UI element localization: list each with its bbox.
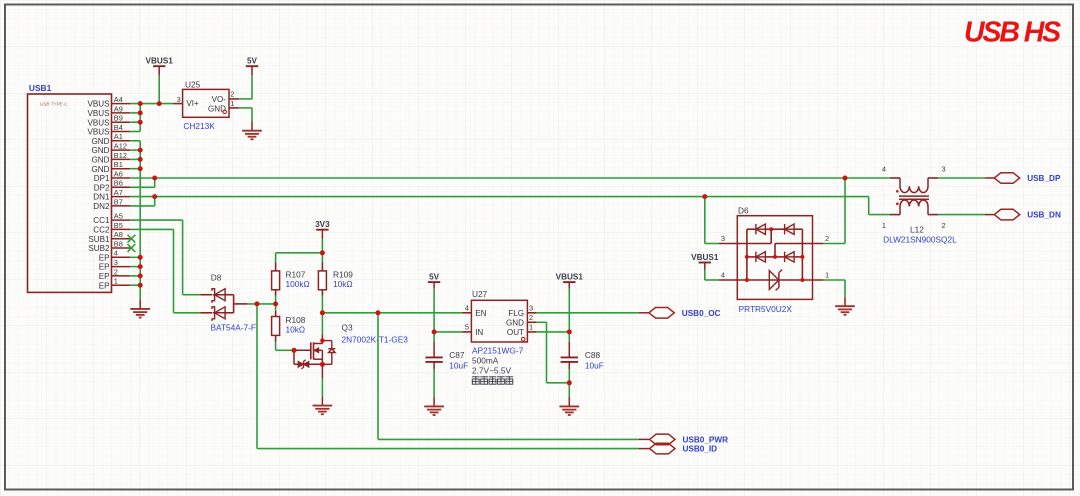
svg-text:USB TYPE-C: USB TYPE-C	[40, 102, 68, 107]
svg-text:B9: B9	[114, 114, 123, 123]
svg-text:DLW21SN900SQ2L: DLW21SN900SQ2L	[883, 234, 957, 244]
svg-text:A8: A8	[114, 230, 123, 239]
svg-text:VBUS1: VBUS1	[691, 253, 719, 262]
svg-text:4: 4	[882, 165, 886, 174]
svg-text:500mA: 500mA	[472, 356, 499, 366]
svg-text:VO-: VO-	[212, 95, 227, 104]
svg-text:IN: IN	[475, 328, 483, 337]
svg-text:10kΩ: 10kΩ	[286, 325, 306, 335]
svg-text:USB HS: USB HS	[964, 16, 1061, 48]
svg-text:10uF: 10uF	[585, 360, 604, 370]
svg-text:5V: 5V	[429, 273, 440, 282]
svg-text:USB0_PWR: USB0_PWR	[683, 436, 729, 445]
svg-text:U25: U25	[185, 79, 201, 89]
svg-text:3: 3	[529, 304, 533, 313]
svg-text:D6: D6	[738, 206, 749, 216]
svg-text:VI+: VI+	[186, 99, 199, 108]
svg-text:EP: EP	[99, 281, 110, 290]
svg-text:2: 2	[942, 221, 946, 230]
svg-text:DP1: DP1	[94, 174, 110, 183]
svg-text:3: 3	[721, 234, 725, 243]
svg-text:B6: B6	[114, 179, 123, 188]
svg-text:3: 3	[177, 95, 181, 104]
svg-text:2: 2	[529, 313, 533, 322]
svg-text:VBUS1: VBUS1	[556, 273, 584, 282]
svg-text:VBUS: VBUS	[87, 118, 110, 127]
svg-text:USB0_ID: USB0_ID	[683, 445, 718, 454]
svg-text:2: 2	[825, 234, 829, 243]
svg-text:2: 2	[230, 90, 234, 99]
svg-text:OUT: OUT	[507, 328, 524, 337]
svg-text:10uF: 10uF	[449, 360, 468, 370]
svg-text:A7: A7	[114, 188, 123, 197]
svg-text:GND: GND	[92, 156, 110, 165]
svg-text:D8: D8	[211, 273, 222, 283]
svg-text:GND: GND	[92, 165, 110, 174]
svg-text:B8: B8	[114, 239, 123, 248]
svg-text:EP: EP	[99, 272, 110, 281]
svg-text:3: 3	[942, 165, 946, 174]
svg-text:FLG: FLG	[508, 309, 524, 318]
svg-text:DN2: DN2	[93, 202, 110, 211]
svg-text:VBUS: VBUS	[87, 100, 110, 109]
svg-text:2N7002K-T1-GE3: 2N7002K-T1-GE3	[342, 335, 409, 345]
svg-text:VBUS: VBUS	[87, 109, 110, 118]
svg-text:DN1: DN1	[93, 193, 110, 202]
svg-text:VBUS1: VBUS1	[146, 57, 174, 66]
svg-text:U27: U27	[472, 289, 488, 299]
svg-text:1: 1	[230, 99, 234, 108]
svg-text:4: 4	[114, 249, 118, 258]
svg-text:CC2: CC2	[93, 226, 110, 235]
svg-text:10kΩ: 10kΩ	[333, 279, 353, 289]
svg-text:A1: A1	[114, 132, 123, 141]
svg-text:GND: GND	[506, 319, 524, 328]
svg-text:L12: L12	[910, 224, 924, 234]
svg-text:B12: B12	[114, 151, 127, 160]
svg-text:GND: GND	[92, 137, 110, 146]
svg-text:B1: B1	[114, 160, 123, 169]
svg-text:B4: B4	[114, 123, 123, 132]
svg-text:5: 5	[465, 323, 469, 332]
svg-text:5V: 5V	[247, 57, 258, 66]
svg-text:Q3: Q3	[342, 322, 353, 332]
svg-text:B7: B7	[114, 197, 123, 206]
svg-text:1: 1	[825, 271, 829, 280]
svg-text:EP: EP	[99, 253, 110, 262]
svg-text:A9: A9	[114, 104, 123, 113]
svg-text:3V3: 3V3	[315, 220, 330, 229]
svg-text:C87: C87	[449, 350, 465, 360]
svg-text:USB1: USB1	[29, 83, 52, 93]
svg-text:EN: EN	[475, 309, 486, 318]
svg-text:B5: B5	[114, 221, 123, 230]
svg-text:GND: GND	[208, 104, 226, 113]
svg-text:3: 3	[114, 258, 118, 267]
svg-text:USB_DN: USB_DN	[1027, 211, 1061, 220]
svg-text:AP2151WG-7: AP2151WG-7	[472, 346, 524, 356]
svg-text:A6: A6	[114, 169, 123, 178]
svg-text:1: 1	[529, 323, 533, 332]
svg-text:BAT54A-7-F: BAT54A-7-F	[211, 323, 257, 333]
svg-text:GND: GND	[92, 146, 110, 155]
svg-text:1: 1	[114, 277, 118, 286]
svg-text:4: 4	[465, 304, 469, 313]
svg-text:PRTR5V0U2X: PRTR5V0U2X	[739, 304, 793, 314]
svg-text:CH213K: CH213K	[183, 121, 215, 131]
svg-text:1: 1	[882, 221, 886, 230]
svg-text:2: 2	[114, 267, 118, 276]
svg-text:A12: A12	[114, 142, 127, 151]
svg-text:EP: EP	[99, 263, 110, 272]
svg-text:VBUS: VBUS	[87, 128, 110, 137]
svg-text:C88: C88	[585, 350, 601, 360]
svg-text:USB_DP: USB_DP	[1027, 174, 1061, 183]
svg-text:USB0_OC: USB0_OC	[682, 309, 721, 318]
svg-text:A4: A4	[114, 95, 123, 104]
svg-text:SUB1: SUB1	[88, 235, 110, 244]
svg-text:A5: A5	[114, 212, 123, 221]
svg-text:100kΩ: 100kΩ	[286, 279, 310, 289]
svg-text:2.7V~5.5V: 2.7V~5.5V	[472, 365, 511, 375]
svg-text:SUB2: SUB2	[88, 244, 110, 253]
svg-text:DP2: DP2	[94, 183, 110, 192]
svg-text:R108: R108	[286, 315, 306, 325]
svg-text:R109: R109	[333, 270, 353, 280]
svg-text:4: 4	[721, 271, 725, 280]
svg-text:R107: R107	[286, 270, 306, 280]
svg-text:CC1: CC1	[93, 216, 110, 225]
